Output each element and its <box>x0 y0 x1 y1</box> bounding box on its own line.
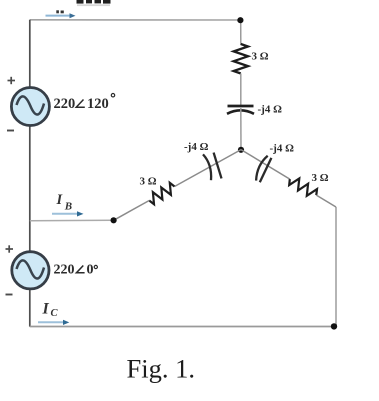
wire right diagonal lower segment (resistor to corner) <box>316 195 336 207</box>
resistor R top 3 ohm <box>234 44 248 74</box>
minus sign V1 <box>7 130 14 132</box>
svg-text:I: I <box>56 192 64 208</box>
wire right diagonal upper segment (node to capacitor) <box>241 150 290 180</box>
wire middle horizontal (phase B feeder) <box>30 219 114 222</box>
wire right vertical <box>335 207 337 327</box>
cut-off text fragment top edge <box>77 0 84 4</box>
svg-text:-j4 Ω: -j4 Ω <box>270 143 295 155</box>
capacitor C right -j4 ohm : outer plate <box>260 158 272 182</box>
current arrow IB <box>52 213 78 215</box>
source V2 220&#8736;0 : circle <box>12 252 49 289</box>
wire left diagonal upper segment (node to capacitor) <box>175 150 242 187</box>
svg-text:B: B <box>64 201 72 213</box>
capacitor C top -j4 ohm : curved plate <box>227 110 254 114</box>
svg-text:3 Ω: 3 Ω <box>252 51 269 63</box>
wire top horizontal <box>30 19 241 21</box>
plus sign V2 <box>6 245 14 252</box>
node junction top (dot) <box>237 17 243 23</box>
svg-text:3 Ω: 3 Ω <box>312 172 329 184</box>
cut-off IA label marks <box>56 10 59 13</box>
node B junction (dot) <box>111 217 117 223</box>
wire left vertical <box>29 20 31 327</box>
source V1 sine wave <box>17 96 45 114</box>
wire top branch vertical (above resistor) <box>240 20 242 45</box>
svg-text:-j4 Ω: -j4 Ω <box>184 141 209 153</box>
wire between C top and centre node <box>240 108 242 150</box>
svg-text:220: 220 <box>54 96 76 112</box>
plus sign V1 <box>8 77 16 84</box>
node bottom right (dot) <box>331 323 337 329</box>
capacitor C right -j4 ohm : inner curved plate <box>256 156 268 181</box>
node centre Y (dot) <box>238 147 244 153</box>
svg-text:0: 0 <box>87 263 94 278</box>
current arrow IC <box>38 321 64 323</box>
resistor R left 3 ohm <box>149 183 174 204</box>
svg-text:120: 120 <box>87 96 109 112</box>
resistor R right 3 ohm <box>289 178 317 195</box>
svg-text:3 Ω: 3 Ω <box>140 176 157 188</box>
capacitor C top -j4 ohm : straight plate <box>228 105 254 108</box>
wire left diagonal lower segment (resistor to node B) <box>114 201 150 221</box>
capacitor C left -j4 ohm : inner plate <box>214 153 222 179</box>
svg-text:220: 220 <box>54 263 75 278</box>
minus sign V2 <box>6 294 13 296</box>
wire bottom horizontal <box>30 326 336 328</box>
capacitor C left -j4 ohm : outer curved plate <box>203 154 211 180</box>
svg-text:I: I <box>42 301 50 318</box>
wire between R top and C top <box>240 74 242 106</box>
source V1 220&#8736;120 : circle <box>11 88 49 126</box>
svg-text:C: C <box>51 308 59 319</box>
svg-text:-j4 Ω: -j4 Ω <box>258 104 283 116</box>
source V2 sine wave <box>17 260 45 278</box>
svg-text:Fig. 1.: Fig. 1. <box>127 354 195 384</box>
current arrow IA (top, label cut off) <box>46 15 71 17</box>
